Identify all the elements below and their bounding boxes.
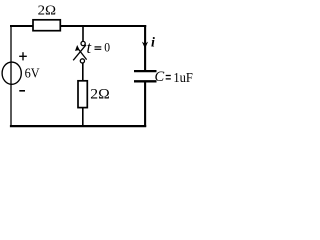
svg-text:2Ω: 2Ω — [90, 87, 110, 103]
resistor R1 2ohm (top, box style) — [33, 20, 60, 31]
capacitor C1 bottom plate — [134, 80, 157, 82]
minus sign of source — [19, 90, 25, 92]
switch motion arrow head — [75, 45, 80, 51]
svg-text:i: i — [151, 35, 155, 50]
svg-text:2Ω: 2Ω — [38, 3, 57, 18]
wire: top horizontal — [10, 25, 146, 27]
switch motion arrow shaft — [79, 50, 87, 60]
wire: right vertical lower (capacitor to bottom corner) — [144, 82, 146, 127]
wire: bottom horizontal — [10, 125, 146, 127]
svg-text:C: C — [155, 69, 165, 85]
wire: R2 bottom lead — [82, 108, 84, 127]
plus sign of source — [19, 52, 27, 60]
capacitor C1 top plate — [134, 70, 157, 72]
switch bottom contact circle — [80, 59, 84, 63]
wire: left vertical (through source) — [10, 25, 12, 126]
svg-text:t: t — [87, 38, 92, 57]
svg-text:1uF: 1uF — [173, 71, 193, 86]
current arrow i (down dart on right wire) — [142, 42, 148, 49]
svg-text:6V: 6V — [25, 67, 40, 82]
label = (of C = 1uF) — [166, 76, 171, 79]
label = (of t = 0) — [95, 47, 102, 49]
switch blade — [73, 45, 86, 61]
wire: switch bottom lead to R2 — [82, 63, 84, 81]
resistor R2 2ohm (vertical box) — [78, 81, 87, 108]
svg-text:0: 0 — [104, 41, 110, 55]
switch top contact circle — [81, 41, 85, 45]
voltage source V1 (circle) — [2, 62, 21, 84]
wire: right vertical upper (corner to capacitor) — [144, 25, 146, 70]
wire: switch top lead — [82, 26, 84, 41]
